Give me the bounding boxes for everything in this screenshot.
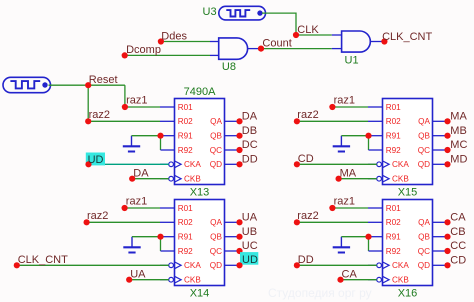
wire CA to X16.CKB [341,279,377,281]
pin stub U1 input A [332,34,342,36]
wire CLK_CNT to X14.CKA [17,264,169,266]
node UD input X13 (highlight) [86,153,105,166]
svg-text:Студопедия орг ру: Студопедия орг ру [268,286,372,300]
svg-text:R02: R02 [178,117,193,126]
node raz1 (X16) [332,207,368,209]
svg-text:CKA: CKA [184,261,201,270]
svg-text:QC: QC [418,247,430,256]
svg-text:raz2: raz2 [87,210,108,222]
svg-text:UA: UA [242,212,258,224]
node raz2 (X14) [87,221,160,223]
svg-text:CKB: CKB [392,175,409,184]
node CD output [444,262,450,268]
node Ddes [158,38,164,44]
svg-text:QD: QD [418,160,430,169]
node UA input X14 [126,277,132,283]
svg-text:CD: CD [298,153,314,165]
clock source (left stimulus generator) [3,77,51,92]
pin stub U8 input B [210,54,219,56]
svg-text:CLK: CLK [297,24,319,36]
svg-text:X13: X13 [190,187,210,199]
pin stub QA of X14 [225,221,240,223]
svg-text:CLK_CNT: CLK_CNT [382,31,432,43]
pin stub CKB (inverted clock input) of X14 [160,279,169,281]
svg-text:U3: U3 [203,6,217,18]
node Reset [85,82,91,88]
svg-text:QB: QB [210,132,222,141]
svg-text:DA: DA [242,111,258,123]
svg-text:CA: CA [342,269,358,281]
pin stub CKB (inverted clock input) of X13 [160,178,169,180]
wire Count to U1 input B [261,48,332,50]
wire DD to X16.CKA [297,264,377,266]
wire UA to X14.CKB [129,279,169,281]
AND gate U1 [342,31,371,52]
junction node R91 X14 [157,234,163,240]
node CLK_CNT (U1 output) [381,38,387,44]
svg-text:raz2: raz2 [297,210,318,222]
svg-text:R91: R91 [178,233,193,242]
wire UD to X13.CKA (highlighted) [89,163,169,165]
svg-text:R02: R02 [386,218,401,227]
pin stub CKA (inverted clock input) of X15 [368,163,377,165]
svg-text:CD: CD [450,255,466,267]
pin stub R91 of X13 [161,135,175,137]
wire: vertical drop to raz1 [124,85,126,107]
ground symbol at X16 [340,237,342,247]
pin stub U1 input B [332,48,342,50]
svg-text:QC: QC [418,146,430,155]
wire: Reset vertical to raz2 [87,85,89,121]
pin stub CKB (inverted clock input) of X16 [368,279,377,281]
svg-text:raz1: raz1 [126,95,147,107]
svg-text:raz1: raz1 [334,196,355,208]
svg-text:R92: R92 [386,247,401,256]
IC X14 7490A body [175,200,225,286]
svg-text:QA: QA [418,117,430,126]
node Count [258,46,264,52]
pin stub U1 output [371,41,385,43]
node DA output [236,118,242,124]
junction node R91 X13 [157,133,163,139]
AND gate U8 [219,38,248,59]
node DB output [236,133,242,139]
IC X16 7490A body [383,200,433,286]
svg-text:CKB: CKB [184,175,201,184]
pin stub R92 + link from R91 junction of X13 [160,136,162,150]
node DA input X13 [129,176,135,182]
svg-text:U8: U8 [222,61,236,73]
svg-text:UC: UC [242,240,258,252]
svg-text:CKA: CKA [392,261,409,270]
pin stub R01 of X14 [160,207,175,209]
pin stub QD of X16 [433,264,448,266]
pin stub R92 + link from R91 junction of X15 [368,136,370,150]
pin stub CKB (inverted clock input) of X15 [368,178,377,180]
wire Dcomp to U8 input B [125,54,210,56]
svg-text:UB: UB [242,226,257,238]
svg-text:X16: X16 [398,288,418,300]
node CLK_CNT input X14 [14,262,20,268]
pin stub U8 output [248,48,261,50]
svg-text:R91: R91 [386,132,401,141]
node CLK [293,32,299,38]
svg-text:R02: R02 [178,218,193,227]
pin stub R92 + link from R91 junction of X16 [368,237,370,251]
node Dcomp [122,52,128,58]
svg-text:QA: QA [418,218,430,227]
node MB output [444,133,450,139]
svg-text:R01: R01 [386,204,401,213]
pin stub CKA (inverted clock input) of X16 [368,264,377,266]
pin stub R02 of X14 [160,221,175,223]
node UB output [236,234,242,240]
wire raz1 to X13.R01 [125,106,160,108]
svg-text:R01: R01 [178,103,193,112]
svg-text:CB: CB [450,226,465,238]
svg-text:CKA: CKA [184,160,201,169]
svg-text:QB: QB [418,132,430,141]
svg-text:MD: MD [450,154,467,166]
svg-text:QB: QB [418,233,430,242]
pin stub CKA (inverted clock input) of X13 [160,163,169,165]
svg-text:DD: DD [242,154,258,166]
svg-text:U1: U1 [345,55,359,67]
svg-text:CC: CC [450,240,466,252]
clock source U3 [219,6,266,20]
pin stub R91 of X15 [369,135,383,137]
svg-text:QC: QC [210,146,222,155]
pin stub QA of X13 [225,120,240,122]
pin stub QB of X14 [225,236,240,238]
svg-text:MA: MA [340,168,357,180]
pin stub QB of X16 [433,236,448,238]
pin stub R91 of X16 [369,236,383,238]
svg-text:QA: QA [210,218,222,227]
node raz1 (X15) [332,106,368,108]
svg-text:CKB: CKB [184,276,201,285]
node CD input X15 [294,161,300,167]
svg-text:UD: UD [88,154,104,166]
node DD input X16 [294,262,300,268]
wire DA to X13.CKB [132,178,169,180]
junction node R91 X16 [365,234,371,240]
svg-text:CKA: CKA [392,160,409,169]
svg-text:raz1: raz1 [334,95,355,107]
pin stub QC of X15 [433,149,448,151]
node CA input X16 [337,277,343,283]
svg-text:DD: DD [298,254,314,266]
svg-text:R92: R92 [178,247,193,256]
svg-text:Count: Count [262,37,291,49]
svg-text:raz2: raz2 [89,109,110,121]
node raz2 (X16) [297,221,368,223]
svg-text:X14: X14 [190,288,210,300]
node CC output [444,248,450,254]
pin stub QC of X16 [433,250,448,252]
IC X13 7490A body [175,99,225,185]
pin stub R02 of X16 [368,221,383,223]
IC X15 7490A body [383,99,433,185]
svg-text:raz1: raz1 [126,196,147,208]
wire raz2 to X13.R02 [88,120,160,122]
pin stub R91 of X14 [161,236,175,238]
node MA input X15 [336,176,342,182]
svg-text:QD: QD [210,261,222,270]
pin stub R01 of X15 [368,106,383,108]
svg-text:QB: QB [210,233,222,242]
svg-text:R02: R02 [386,117,401,126]
svg-text:R01: R01 [386,103,401,112]
pin stub QC of X14 [225,250,240,252]
node UA output [236,219,242,225]
svg-text:CA: CA [450,212,466,224]
wire: clock output to Reset net [49,84,125,86]
svg-text:MC: MC [450,139,467,151]
svg-text:QD: QD [210,160,222,169]
svg-text:Dcomp: Dcomp [126,44,161,56]
svg-text:QC: QC [210,247,222,256]
node UC output [236,248,242,254]
pin stub R02 of X15 [368,120,383,122]
pin stub QA of X15 [433,120,448,122]
pin stub R01 of X16 [368,207,383,209]
ground symbol at X13 [131,136,133,146]
node CB output [444,234,450,240]
node MA output [444,118,450,124]
svg-text:QA: QA [210,117,222,126]
svg-text:CLK_CNT: CLK_CNT [18,254,68,266]
ground symbol at X14 [131,237,133,247]
svg-text:R01: R01 [178,204,193,213]
pin stub R02 of X13 [160,120,175,122]
wire Ddes to U8 input A [161,41,210,43]
svg-text:DC: DC [242,139,258,151]
node MC output [444,147,450,153]
svg-text:R91: R91 [178,132,193,141]
svg-text:UD: UD [242,254,258,266]
pin stub QD of X14 [225,264,240,266]
junction node R91 X15 [365,133,371,139]
wire U3 output [262,13,332,35]
svg-text:MB: MB [450,125,467,137]
svg-text:CKB: CKB [392,276,409,285]
ground symbol at X15 [340,136,342,146]
pin stub R01 of X13 [160,106,175,108]
node DD output [236,161,242,167]
svg-text:R92: R92 [386,146,401,155]
node UD output (highlighted) [240,252,258,265]
pin stub R92 + link from R91 junction of X14 [160,237,162,251]
svg-text:R91: R91 [386,233,401,242]
pin stub CKA (inverted clock input) of X14 [160,264,169,266]
svg-text:UA: UA [130,269,146,281]
wire CD to X15.CKA [297,163,377,165]
pin stub QD of X15 [433,163,448,165]
node raz1 (X13) [122,104,128,110]
svg-text:DB: DB [242,125,257,137]
node raz1 (X14) [125,207,160,209]
wire MA to X15.CKB [339,178,377,180]
svg-text:QD: QD [418,261,430,270]
node raz2 (X15) [297,120,368,122]
pin stub QC of X13 [225,149,240,151]
node CA output [444,219,450,225]
pin stub QD of X13 [225,163,240,165]
pin stub U8 input A [210,41,219,43]
svg-text:MA: MA [450,111,467,123]
node raz2 (X13) [85,118,91,124]
svg-text:Ddes: Ddes [161,30,187,42]
svg-text:Reset: Reset [89,74,118,86]
node MD output [444,161,450,167]
svg-text:DA: DA [133,168,149,180]
svg-text:7490A: 7490A [184,86,216,98]
svg-text:X15: X15 [398,187,418,199]
svg-text:R92: R92 [178,146,193,155]
pin stub QB of X13 [225,135,240,137]
pin stub QA of X16 [433,221,448,223]
node DC output [236,147,242,153]
pin stub QB of X15 [433,135,448,137]
svg-text:raz2: raz2 [297,109,318,121]
